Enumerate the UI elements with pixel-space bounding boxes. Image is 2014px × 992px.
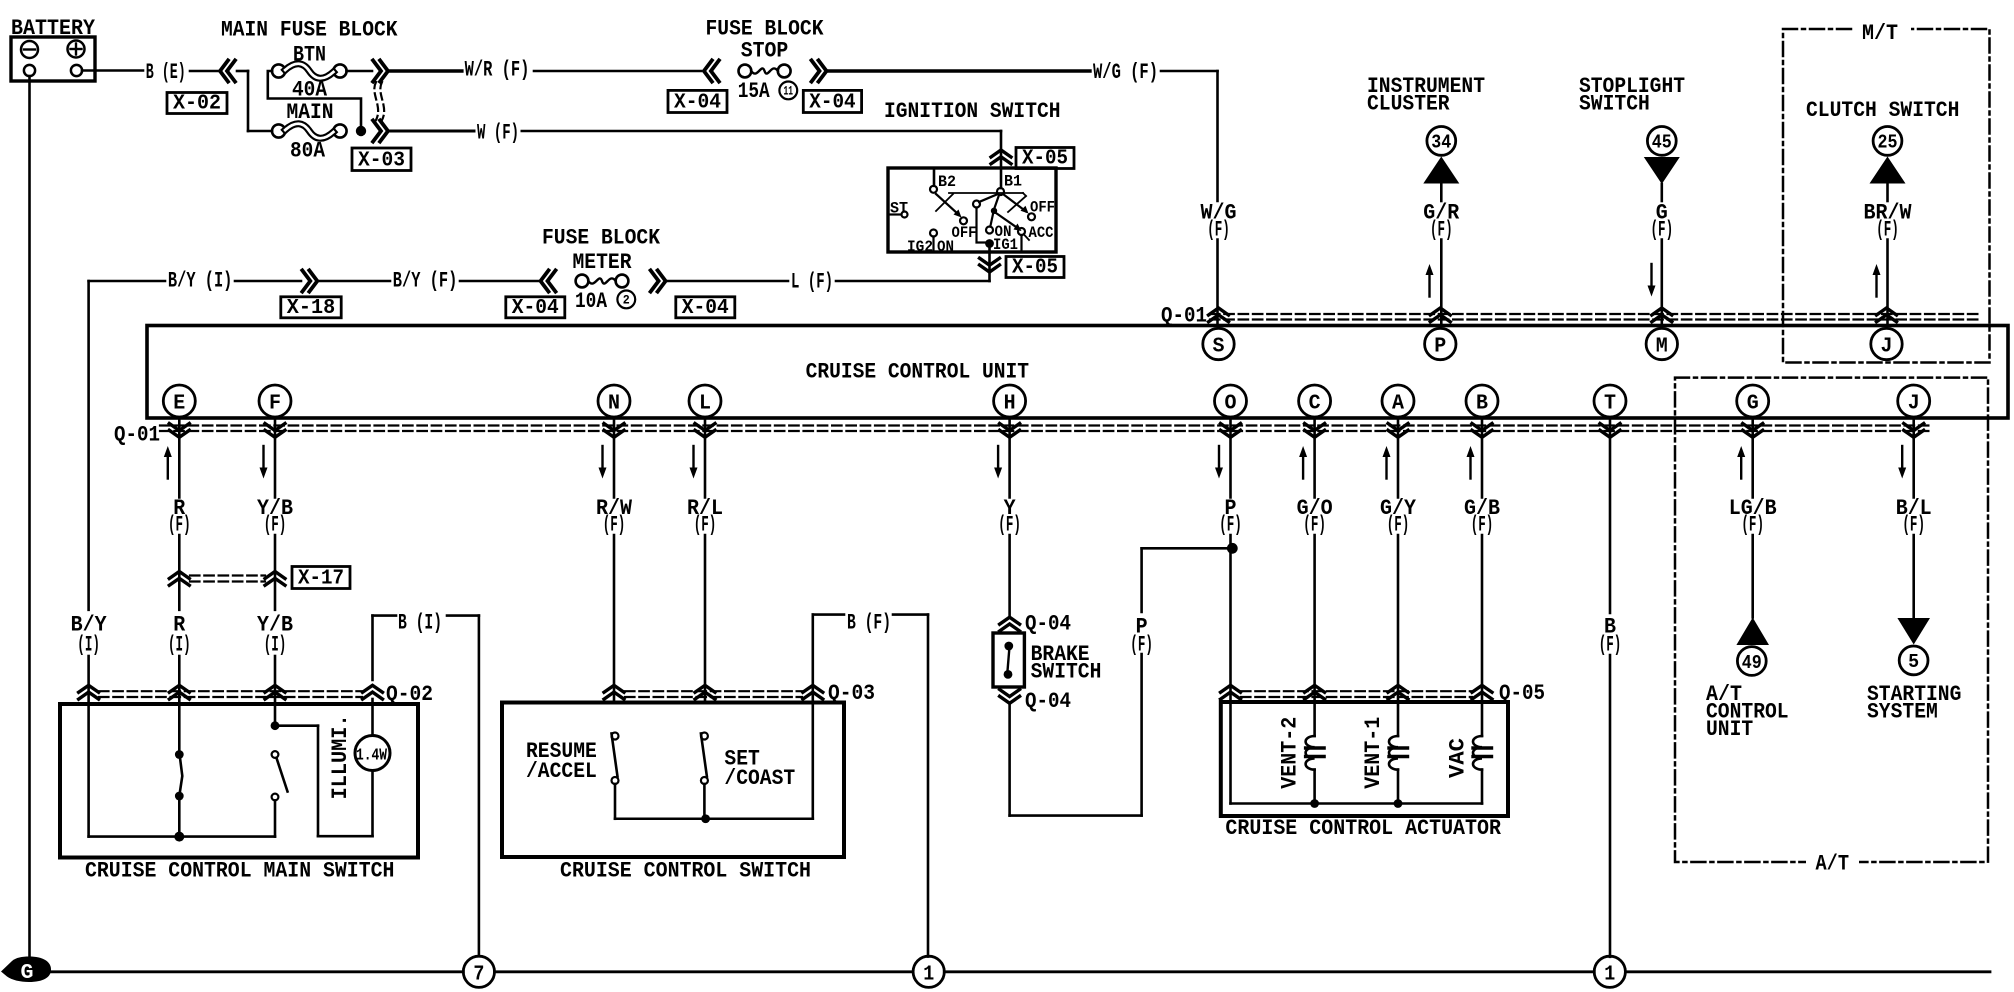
svg-text:SWITCH: SWITCH [1031,660,1102,685]
svg-text:80A: 80A [290,139,326,164]
svg-text:BATTERY: BATTERY [11,16,96,41]
svg-text:CRUISE CONTROL MAIN SWITCH: CRUISE CONTROL MAIN SWITCH [85,859,394,884]
svg-text:J: J [1881,336,1893,359]
svg-text:X-04: X-04 [682,297,729,320]
svg-text:METER: METER [573,250,633,275]
svg-text:(I): (I) [77,633,100,658]
svg-text:OFF: OFF [1030,199,1055,217]
svg-text:X-04: X-04 [809,92,855,115]
svg-text:X-05: X-05 [1022,148,1068,171]
svg-text:A/T: A/T [1816,852,1850,877]
svg-text:5: 5 [1908,651,1919,673]
svg-text:B1: B1 [1004,173,1022,191]
svg-text:E: E [173,393,185,416]
svg-text:UNIT: UNIT [1706,717,1753,742]
svg-text:Q-04: Q-04 [1025,612,1071,637]
svg-text:/ACCEL: /ACCEL [526,759,597,784]
svg-text:45: 45 [1652,132,1672,154]
svg-text:CRUISE CONTROL SWITCH: CRUISE CONTROL SWITCH [560,859,811,884]
svg-text:CLUSTER: CLUSTER [1367,92,1450,117]
svg-text:B (I): B (I) [398,611,442,636]
svg-text:L: L [699,393,711,416]
svg-text:1.4W: 1.4W [356,747,388,766]
svg-text:P: P [1434,336,1446,359]
svg-text:J: J [1908,393,1920,416]
svg-text:X-05: X-05 [1012,257,1058,280]
svg-text:W/R (F): W/R (F) [465,58,530,83]
svg-text:(I): (I) [168,633,191,658]
svg-text:A: A [1392,393,1404,416]
svg-text:15A: 15A [738,79,771,104]
svg-text:CLUTCH SWITCH: CLUTCH SWITCH [1806,98,1959,123]
svg-text:X-03: X-03 [358,150,405,173]
svg-text:H: H [1004,393,1016,416]
svg-text:OFF: OFF [952,224,977,242]
svg-text:Q-04: Q-04 [1025,689,1071,714]
svg-text:(F): (F) [1130,632,1153,657]
svg-text:CRUISE CONTROL UNIT: CRUISE CONTROL UNIT [806,360,1029,385]
svg-text:49: 49 [1742,652,1762,674]
svg-text:ACC: ACC [1029,224,1054,242]
svg-text:S: S [1213,336,1225,359]
svg-text:34: 34 [1431,132,1451,154]
svg-text:B (F): B (F) [847,611,891,636]
svg-text:L (F): L (F) [791,270,833,295]
svg-text:1: 1 [1604,963,1615,986]
svg-text:ON: ON [995,223,1012,241]
svg-text:X-17: X-17 [298,568,344,591]
svg-text:25: 25 [1878,132,1898,154]
svg-text:W (F): W (F) [477,121,519,146]
svg-text:G: G [21,962,34,985]
svg-text:(I): (I) [264,633,287,658]
svg-text:ILLUMI.: ILLUMI. [328,714,353,799]
svg-text:/COAST: /COAST [724,766,795,791]
svg-text:Q-01: Q-01 [114,423,160,448]
svg-text:B (E): B (E) [146,60,186,85]
svg-text:MAIN FUSE BLOCK: MAIN FUSE BLOCK [221,18,398,43]
svg-text:W/G (F): W/G (F) [1093,60,1158,85]
svg-text:10A: 10A [575,289,608,314]
svg-text:2: 2 [623,293,630,308]
svg-text:G: G [1747,393,1759,416]
svg-text:7: 7 [473,963,484,986]
svg-text:M: M [1656,336,1668,359]
svg-text:STOP: STOP [741,39,789,64]
svg-text:VENT-2: VENT-2 [1278,717,1303,789]
svg-text:B/Y (I): B/Y (I) [168,269,233,294]
svg-text:11: 11 [784,84,794,99]
svg-text:IGNITION SWITCH: IGNITION SWITCH [884,99,1061,124]
svg-text:SWITCH: SWITCH [1579,92,1650,117]
svg-text:X-04: X-04 [512,297,559,320]
svg-text:IG2: IG2 [907,238,933,256]
svg-text:CRUISE CONTROL ACTUATOR: CRUISE CONTROL ACTUATOR [1225,816,1501,841]
svg-text:X-18: X-18 [287,297,335,320]
svg-text:O: O [1225,393,1237,416]
svg-text:B: B [1476,393,1488,416]
svg-text:SYSTEM: SYSTEM [1867,700,1938,725]
svg-text:C: C [1309,393,1321,416]
svg-text:M/T: M/T [1862,21,1898,46]
svg-text:1: 1 [923,963,934,986]
svg-text:T: T [1604,393,1616,416]
svg-text:N: N [608,393,620,416]
svg-text:X-04: X-04 [674,92,721,115]
svg-text:FUSE BLOCK: FUSE BLOCK [542,226,661,251]
svg-text:B/Y (F): B/Y (F) [393,269,458,294]
svg-text:B2: B2 [938,173,956,191]
svg-text:X-02: X-02 [173,93,221,116]
svg-text:VENT-1: VENT-1 [1361,717,1386,789]
svg-text:F: F [269,393,281,416]
svg-text:VAC: VAC [1446,738,1471,778]
